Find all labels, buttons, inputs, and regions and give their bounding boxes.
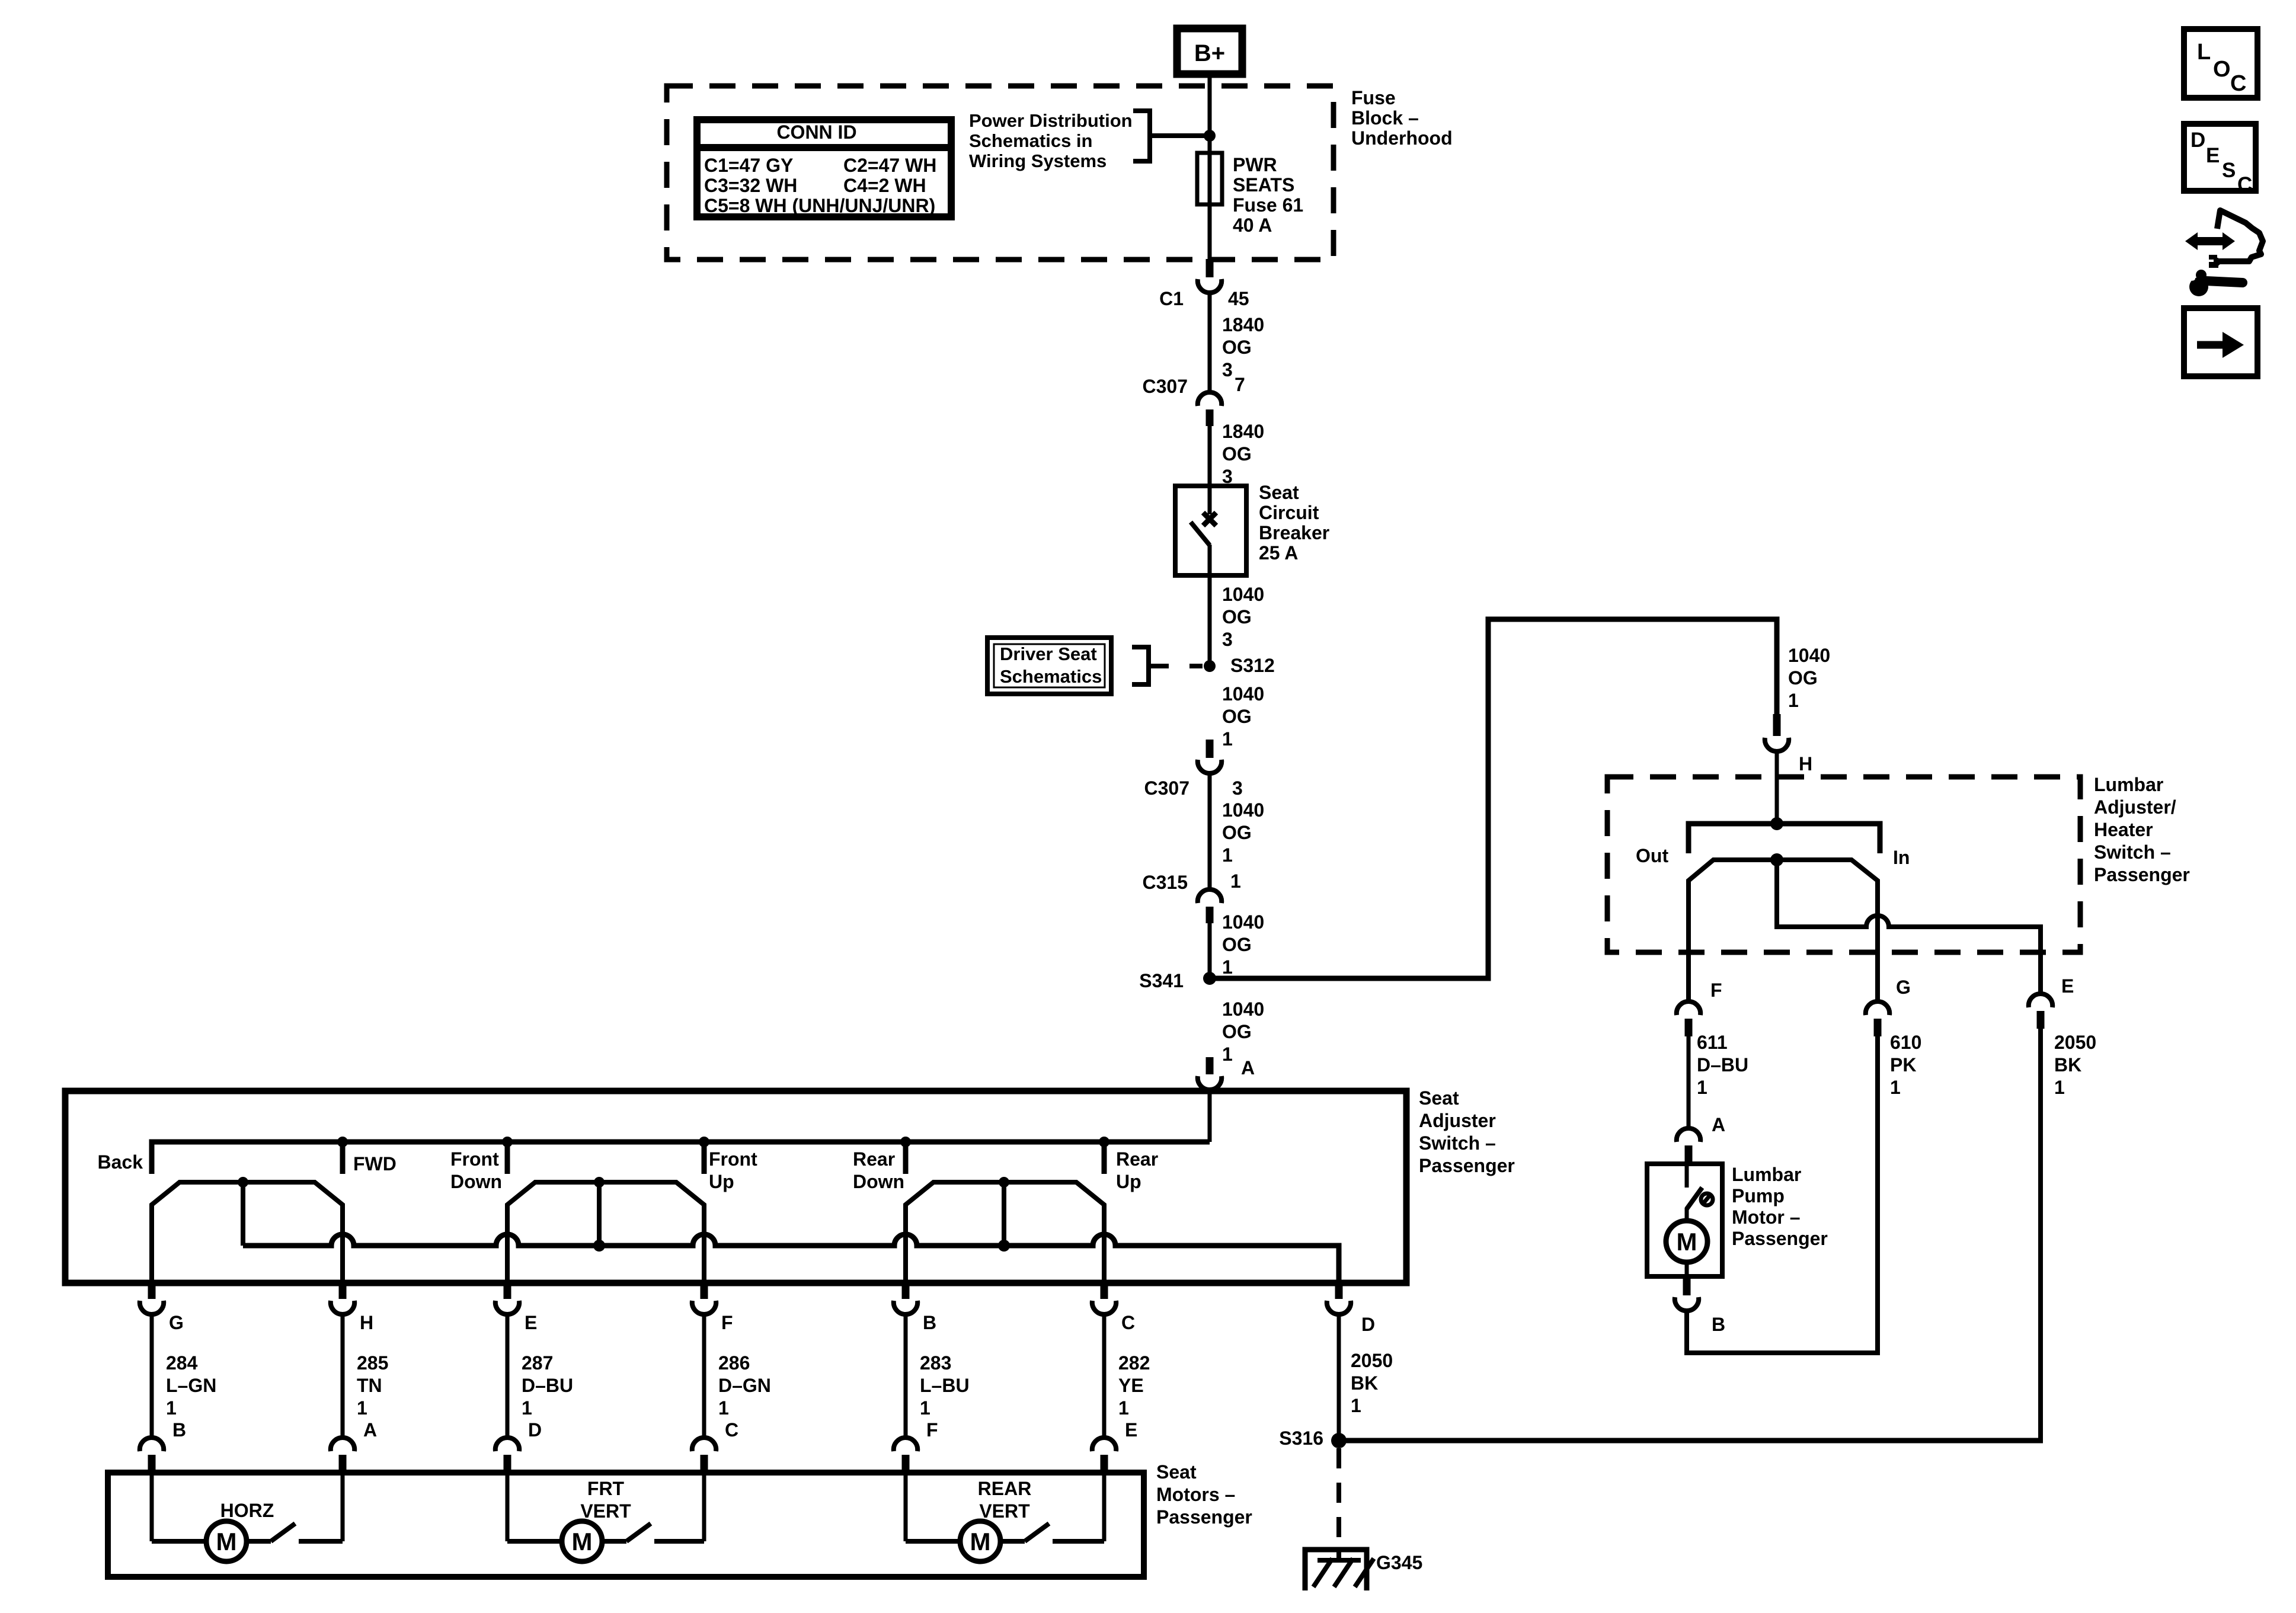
svg-text:REAR: REAR (978, 1478, 1032, 1499)
svg-text:O: O (2213, 57, 2231, 82)
svg-text:C: C (1121, 1312, 1135, 1333)
svg-text:C4=2 WH: C4=2 WH (843, 175, 926, 196)
svg-text:Out: Out (1636, 845, 1668, 866)
svg-text:VERT: VERT (580, 1500, 631, 1522)
svg-text:1: 1 (1890, 1077, 1901, 1098)
svg-text:E: E (1125, 1419, 1137, 1441)
svg-text:B+: B+ (1194, 40, 1225, 66)
svg-text:Pump: Pump (1732, 1185, 1785, 1206)
svg-text:B: B (1712, 1314, 1725, 1335)
svg-text:E: E (2061, 975, 2074, 997)
svg-text:Passenger: Passenger (1732, 1228, 1828, 1249)
svg-text:H: H (360, 1312, 373, 1333)
svg-text:C1=47 GY: C1=47 GY (704, 155, 793, 176)
svg-text:Back: Back (98, 1151, 143, 1173)
svg-text:45: 45 (1228, 288, 1249, 309)
svg-text:CONN ID: CONN ID (776, 121, 856, 143)
svg-text:L: L (2197, 40, 2211, 65)
svg-text:Lumbar: Lumbar (2094, 774, 2163, 795)
svg-text:S312: S312 (1230, 655, 1275, 676)
svg-text:1040: 1040 (1222, 799, 1264, 821)
svg-text:TN: TN (357, 1375, 382, 1396)
svg-text:Up: Up (1116, 1171, 1141, 1192)
svg-text:3: 3 (1232, 777, 1243, 799)
svg-text:Rear: Rear (853, 1148, 895, 1170)
svg-text:Driver Seat: Driver Seat (1000, 644, 1097, 664)
svg-text:Motor –: Motor – (1732, 1206, 1801, 1228)
svg-text:C: C (2230, 71, 2246, 96)
svg-text:Front: Front (709, 1148, 757, 1170)
svg-text:1040: 1040 (1222, 998, 1264, 1020)
svg-text:M: M (216, 1528, 237, 1556)
svg-text:40 A: 40 A (1233, 215, 1272, 236)
svg-text:Circuit: Circuit (1259, 502, 1319, 523)
svg-text:SEATS: SEATS (1233, 174, 1294, 196)
svg-text:G: G (1896, 977, 1911, 998)
svg-text:Fuse: Fuse (1351, 87, 1396, 108)
svg-text:283: 283 (920, 1352, 951, 1374)
svg-text:S341: S341 (1139, 970, 1184, 991)
svg-text:E: E (2206, 144, 2220, 167)
svg-text:1040: 1040 (1222, 584, 1264, 605)
svg-text:1: 1 (1222, 844, 1233, 866)
svg-text:VERT: VERT (979, 1500, 1030, 1522)
svg-text:1040: 1040 (1222, 683, 1264, 705)
svg-text:Seat: Seat (1259, 482, 1299, 503)
svg-text:25 A: 25 A (1259, 542, 1298, 564)
svg-text:OG: OG (1222, 606, 1252, 628)
svg-text:Motors –: Motors – (1156, 1484, 1235, 1505)
svg-text:B: B (172, 1419, 186, 1441)
svg-text:C315: C315 (1143, 872, 1188, 893)
svg-text:OG: OG (1222, 1021, 1252, 1042)
svg-text:Schematics: Schematics (1000, 666, 1102, 687)
svg-text:C307: C307 (1143, 376, 1188, 397)
svg-text:F: F (1710, 980, 1722, 1001)
svg-text:Seat: Seat (1156, 1461, 1197, 1483)
svg-text:Seat: Seat (1419, 1087, 1459, 1109)
svg-text:A: A (363, 1419, 377, 1441)
svg-text:Front: Front (450, 1148, 499, 1170)
svg-text:1840: 1840 (1222, 314, 1264, 335)
svg-text:G: G (169, 1312, 184, 1333)
svg-text:287: 287 (522, 1352, 553, 1374)
svg-text:1040: 1040 (1222, 911, 1264, 933)
svg-text:611: 611 (1697, 1032, 1728, 1053)
svg-text:Down: Down (853, 1171, 904, 1192)
svg-text:1: 1 (1788, 690, 1799, 711)
svg-text:1: 1 (166, 1397, 177, 1419)
svg-text:286: 286 (718, 1352, 750, 1374)
svg-text:G345: G345 (1376, 1552, 1422, 1573)
svg-text:2050: 2050 (1351, 1350, 1393, 1371)
svg-text:S: S (2222, 159, 2236, 182)
svg-text:L–GN: L–GN (166, 1375, 216, 1396)
svg-text:1: 1 (357, 1397, 367, 1419)
svg-text:3: 3 (1222, 629, 1233, 650)
svg-text:Wiring Systems: Wiring Systems (969, 151, 1107, 171)
svg-text:1: 1 (1222, 956, 1233, 978)
svg-text:1: 1 (718, 1397, 729, 1419)
svg-text:282: 282 (1118, 1352, 1150, 1374)
svg-text:FWD: FWD (353, 1153, 396, 1174)
svg-text:B: B (923, 1312, 936, 1333)
svg-text:S316: S316 (1279, 1428, 1323, 1449)
svg-text:A: A (1712, 1114, 1725, 1135)
svg-text:H: H (1799, 753, 1812, 775)
svg-text:D: D (2191, 129, 2205, 152)
svg-text:1: 1 (1222, 728, 1233, 750)
svg-text:In: In (1893, 847, 1910, 868)
svg-text:Passenger: Passenger (1156, 1506, 1252, 1528)
svg-text:1: 1 (2054, 1077, 2065, 1098)
svg-text:1: 1 (1697, 1077, 1707, 1098)
svg-text:D–GN: D–GN (718, 1375, 771, 1396)
svg-text:1: 1 (920, 1397, 930, 1419)
svg-text:Switch –: Switch – (1419, 1132, 1496, 1154)
svg-text:OG: OG (1222, 934, 1252, 955)
svg-text:F: F (926, 1419, 938, 1441)
svg-text:D: D (528, 1419, 542, 1441)
svg-text:Lumbar: Lumbar (1732, 1164, 1801, 1185)
svg-text:Up: Up (709, 1171, 734, 1192)
svg-text:C: C (725, 1419, 738, 1441)
svg-text:C: C (2237, 173, 2252, 196)
svg-text:C3=32 WH: C3=32 WH (704, 175, 797, 196)
svg-text:OG: OG (1222, 822, 1252, 843)
svg-text:PK: PK (1890, 1054, 1916, 1076)
svg-text:D: D (1361, 1314, 1375, 1335)
svg-text:Passenger: Passenger (2094, 864, 2190, 885)
svg-text:1: 1 (1222, 1044, 1233, 1065)
svg-text:OG: OG (1788, 667, 1818, 689)
svg-text:1840: 1840 (1222, 421, 1264, 442)
svg-text:Rear: Rear (1116, 1148, 1158, 1170)
svg-text:E: E (525, 1312, 537, 1333)
svg-text:Down: Down (450, 1171, 502, 1192)
svg-text:Fuse 61: Fuse 61 (1233, 194, 1303, 216)
svg-text:Passenger: Passenger (1419, 1155, 1515, 1176)
svg-text:F: F (721, 1312, 733, 1333)
svg-text:OG: OG (1222, 706, 1252, 727)
svg-text:1: 1 (522, 1397, 532, 1419)
svg-text:7: 7 (1235, 374, 1245, 395)
svg-text:Adjuster/: Adjuster/ (2094, 796, 2176, 818)
svg-text:285: 285 (357, 1352, 388, 1374)
svg-text:M: M (572, 1528, 593, 1556)
svg-text:M: M (1677, 1228, 1697, 1256)
svg-text:3: 3 (1222, 359, 1233, 380)
svg-text:L–BU: L–BU (920, 1375, 970, 1396)
svg-text:Power Distribution: Power Distribution (969, 110, 1133, 131)
svg-text:2050: 2050 (2054, 1032, 2096, 1053)
svg-text:Breaker: Breaker (1259, 522, 1329, 543)
svg-text:Heater: Heater (2094, 819, 2153, 840)
svg-text:C1: C1 (1159, 288, 1184, 309)
svg-text:D–BU: D–BU (1697, 1054, 1748, 1076)
svg-text:BK: BK (1351, 1372, 1378, 1394)
svg-text:OG: OG (1222, 337, 1252, 358)
svg-text:Adjuster: Adjuster (1419, 1110, 1496, 1131)
svg-text:Underhood: Underhood (1351, 127, 1453, 149)
svg-text:284: 284 (166, 1352, 198, 1374)
svg-text:Switch –: Switch – (2094, 841, 2171, 863)
svg-text:A: A (1241, 1057, 1255, 1078)
svg-text:1: 1 (1230, 870, 1241, 892)
svg-text:BK: BK (2054, 1054, 2081, 1076)
svg-text:C5=8 WH (UNH/UNJ/UNR): C5=8 WH (UNH/UNJ/UNR) (704, 195, 935, 216)
svg-text:1040: 1040 (1788, 645, 1830, 666)
svg-text:PWR: PWR (1233, 154, 1277, 175)
svg-text:Block –: Block – (1351, 107, 1419, 129)
svg-text:610: 610 (1890, 1032, 1921, 1053)
svg-text:D–BU: D–BU (522, 1375, 573, 1396)
svg-text:1: 1 (1118, 1397, 1129, 1419)
svg-text:C2=47 WH: C2=47 WH (843, 155, 936, 176)
svg-text:M: M (970, 1528, 991, 1556)
svg-text:1: 1 (1351, 1395, 1361, 1416)
svg-text:Schematics in: Schematics in (969, 130, 1092, 151)
svg-text:YE: YE (1118, 1375, 1144, 1396)
svg-text:FRT: FRT (587, 1478, 625, 1499)
svg-text:OG: OG (1222, 443, 1252, 465)
svg-text:HORZ: HORZ (220, 1500, 274, 1521)
svg-text:C307: C307 (1144, 777, 1190, 799)
